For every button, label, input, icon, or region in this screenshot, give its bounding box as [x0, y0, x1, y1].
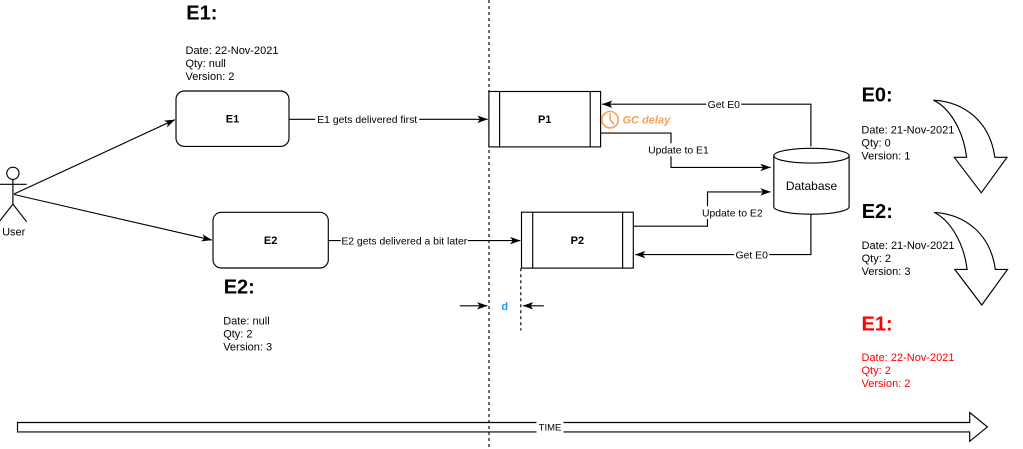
arrow User to E2: [14, 195, 212, 241]
wire Get E0 bottom (database to P2): [635, 214, 811, 254]
svg-text:Get E0: Get E0: [708, 100, 741, 111]
edge E1 to P1: [289, 118, 488, 120]
svg-text:E1:: E1:: [186, 3, 217, 25]
svg-text:User: User: [2, 227, 26, 239]
short dashed line below P2: [520, 268, 522, 330]
wire Update to E1 (P1 to database): [601, 133, 771, 167]
svg-text:E2 gets delivered a bit later: E2 gets delivered a bit later: [341, 237, 467, 248]
svg-text:E2:: E2:: [862, 201, 893, 223]
label Update to E2: [701, 206, 763, 219]
svg-text:E2:: E2:: [224, 276, 255, 298]
svg-text:E1 gets delivered first: E1 gets delivered first: [317, 115, 417, 126]
rounded box E2: [213, 212, 328, 268]
TIME label: [537, 421, 564, 434]
wire Get E0 top (database to P1): [602, 104, 811, 146]
label Get E0 top: [706, 98, 741, 111]
svg-text:Update to E2: Update to E2: [702, 209, 763, 220]
rounded box E1: [176, 91, 289, 146]
svg-text:E1:: E1:: [862, 314, 893, 336]
svg-text:E1: E1: [226, 114, 239, 126]
d-measure right arrow: [523, 305, 544, 307]
TIME axis arrow: [18, 413, 988, 442]
edge label E2 gets delivered a bit later: [341, 234, 468, 247]
process box P1: [489, 92, 601, 147]
svg-text:P1: P1: [538, 114, 551, 126]
dashed divider line: [488, 0, 490, 449]
svg-text:Database: Database: [786, 179, 838, 193]
arrow User to E1: [14, 120, 175, 194]
swoosh arrow 1 (E0): [934, 100, 1008, 193]
edge E2 to P2: [328, 240, 520, 242]
svg-text:GC delay: GC delay: [623, 114, 672, 126]
database cylinder: [774, 148, 849, 214]
svg-text:E2: E2: [264, 235, 277, 247]
process box P2: [522, 212, 634, 268]
svg-text:Update to E1: Update to E1: [648, 146, 709, 157]
label Get E0 bottom: [734, 248, 769, 261]
swoosh arrow 2 (E2): [934, 212, 1008, 305]
svg-text:d: d: [501, 301, 508, 313]
svg-text:E0:: E0:: [862, 84, 893, 106]
svg-text:TIME: TIME: [539, 422, 562, 433]
clock icon GC delay: [602, 112, 618, 128]
svg-text:Get E0: Get E0: [736, 251, 769, 262]
d-measure left arrow: [460, 305, 488, 307]
actor User: [0, 167, 27, 222]
svg-text:P2: P2: [571, 235, 584, 247]
edge label E1 gets delivered first: [315, 113, 419, 126]
label Update to E1: [647, 143, 709, 156]
wire Update to E2 (P2 to database): [633, 192, 770, 226]
